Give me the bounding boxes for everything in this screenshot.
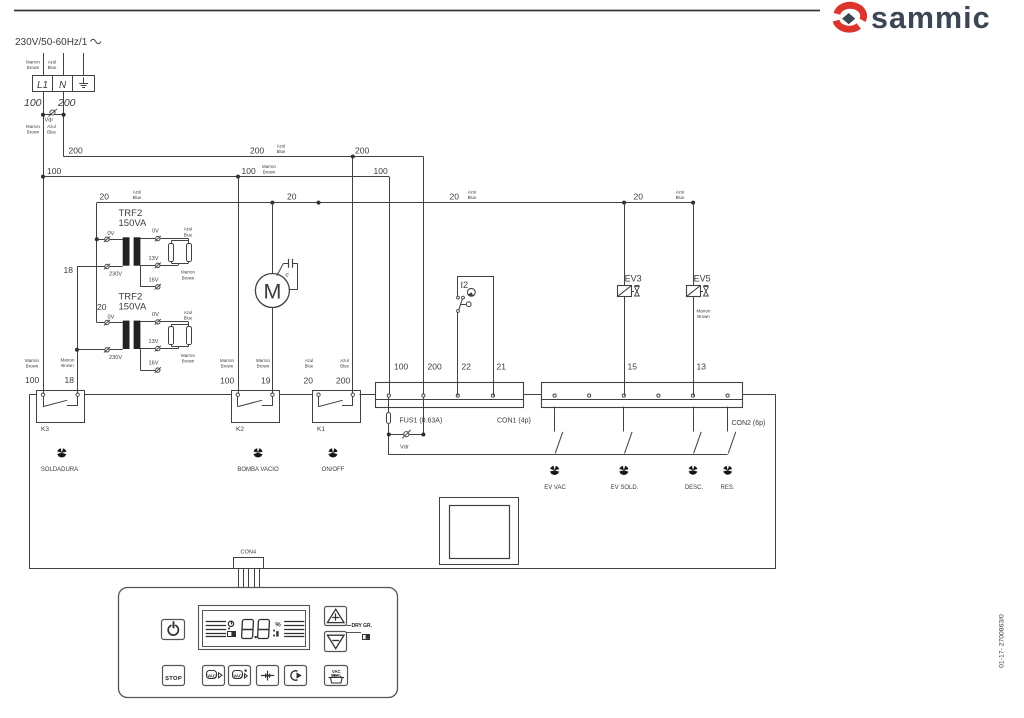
- svg-text:100: 100: [394, 362, 408, 372]
- svg-text:Marron: Marron: [697, 309, 711, 314]
- svg-text:22: 22: [462, 362, 472, 372]
- svg-text:Marron: Marron: [220, 358, 234, 363]
- svg-text:230V/50-60Hz/1: 230V/50-60Hz/1: [15, 37, 88, 48]
- svg-text:Brown: Brown: [182, 275, 195, 280]
- svg-text:FUS1 (0.63A): FUS1 (0.63A): [400, 418, 443, 425]
- svg-text:100: 100: [220, 376, 234, 386]
- svg-text:BOMBA VACIO: BOMBA VACIO: [237, 467, 279, 473]
- svg-text:Azul: Azul: [340, 358, 349, 363]
- svg-text:Marron: Marron: [61, 358, 75, 363]
- svg-text:20: 20: [100, 192, 110, 202]
- svg-text:CON1 (4p): CON1 (4p): [497, 418, 531, 425]
- svg-text:L1: L1: [37, 80, 48, 91]
- svg-text:230V: 230V: [109, 272, 122, 278]
- svg-text:sammic: sammic: [871, 1, 991, 35]
- svg-text:0V: 0V: [108, 314, 115, 320]
- svg-text:100: 100: [374, 166, 388, 176]
- svg-text:Brown: Brown: [182, 359, 195, 364]
- svg-text:150VA: 150VA: [119, 301, 147, 312]
- svg-text:Marron: Marron: [181, 270, 195, 275]
- svg-text:K3: K3: [41, 426, 49, 433]
- svg-text:Brown: Brown: [263, 169, 276, 174]
- svg-text:Vdr: Vdr: [400, 444, 409, 450]
- svg-text:13: 13: [697, 362, 707, 372]
- svg-text:20: 20: [304, 376, 314, 386]
- svg-text:K2: K2: [236, 426, 244, 433]
- svg-text:VAC: VAC: [207, 674, 216, 679]
- svg-text:13V: 13V: [149, 256, 159, 262]
- svg-text:Azul: Azul: [48, 60, 57, 65]
- svg-text:20: 20: [634, 192, 644, 202]
- svg-text:20: 20: [287, 192, 297, 202]
- svg-text:Marron: Marron: [25, 358, 39, 363]
- svg-text:Brown: Brown: [27, 130, 40, 135]
- svg-text:CON4: CON4: [241, 549, 257, 555]
- svg-text:DESC.: DESC.: [685, 485, 704, 491]
- svg-text:Blue: Blue: [184, 316, 193, 321]
- svg-text:ON/OFF: ON/OFF: [322, 467, 345, 473]
- svg-text:150VA: 150VA: [119, 218, 147, 229]
- svg-text:Blue: Blue: [340, 363, 349, 368]
- svg-text:Marron: Marron: [256, 358, 270, 363]
- svg-text:Blue: Blue: [48, 65, 57, 70]
- svg-text:100: 100: [24, 97, 42, 109]
- svg-text:0V: 0V: [152, 229, 159, 235]
- svg-text:EV5: EV5: [694, 273, 711, 283]
- svg-text:15: 15: [628, 362, 638, 372]
- svg-text:RES.: RES.: [720, 485, 734, 491]
- svg-text:200: 200: [250, 146, 264, 156]
- svg-text:18: 18: [65, 375, 75, 385]
- svg-text:Blue: Blue: [184, 232, 193, 237]
- svg-text:EV VAC: EV VAC: [544, 485, 566, 491]
- svg-text:Azul: Azul: [184, 227, 193, 232]
- svg-text:CON2 (6p): CON2 (6p): [732, 420, 766, 427]
- svg-text:Brown: Brown: [221, 363, 234, 368]
- svg-text:Brown: Brown: [26, 363, 39, 368]
- svg-text:Blue: Blue: [47, 130, 56, 135]
- svg-text:100: 100: [242, 166, 256, 176]
- svg-text:Azul: Azul: [676, 190, 685, 195]
- svg-text:DRY GR.: DRY GR.: [352, 623, 373, 629]
- svg-text:EV SOLD.: EV SOLD.: [611, 485, 639, 491]
- svg-text:19: 19: [261, 376, 271, 386]
- svg-text:VAC: VAC: [233, 674, 242, 679]
- svg-text:Blue: Blue: [133, 195, 142, 200]
- svg-text:Marron: Marron: [26, 60, 40, 65]
- svg-text:100: 100: [25, 375, 39, 385]
- svg-text:Vdr: Vdr: [45, 118, 54, 124]
- svg-text:13V: 13V: [149, 339, 159, 345]
- svg-text:Blue: Blue: [468, 195, 477, 200]
- svg-text:01-17- 2700863/0: 01-17- 2700863/0: [999, 614, 1006, 668]
- svg-text:I2: I2: [461, 280, 469, 290]
- svg-text:SOLDADURA: SOLDADURA: [41, 467, 78, 473]
- svg-text:20: 20: [450, 192, 460, 202]
- svg-text:200: 200: [428, 362, 442, 372]
- svg-text:Blue: Blue: [676, 195, 685, 200]
- svg-text:21: 21: [497, 362, 507, 372]
- svg-text:200: 200: [336, 376, 350, 386]
- svg-text:%: %: [275, 622, 281, 629]
- svg-text:200: 200: [355, 146, 369, 156]
- svg-text:Blue: Blue: [277, 149, 286, 154]
- svg-text:M: M: [263, 279, 281, 303]
- svg-text:16V: 16V: [149, 277, 159, 283]
- svg-text:Azul: Azul: [133, 190, 142, 195]
- svg-text:Azul: Azul: [305, 358, 314, 363]
- svg-text:Marron: Marron: [181, 353, 195, 358]
- svg-text:Azul: Azul: [277, 144, 286, 149]
- svg-text:18: 18: [64, 265, 74, 275]
- svg-text:0V: 0V: [152, 312, 159, 318]
- svg-text:Blue: Blue: [305, 363, 314, 368]
- svg-text:20: 20: [97, 302, 107, 312]
- svg-text:Brown: Brown: [61, 363, 74, 368]
- svg-text:N: N: [59, 80, 67, 91]
- svg-text:Marron: Marron: [262, 164, 276, 169]
- svg-text:200: 200: [69, 146, 83, 156]
- svg-text:STOP: STOP: [165, 676, 182, 682]
- svg-text:Brown: Brown: [697, 314, 710, 319]
- svg-text:K1: K1: [317, 426, 325, 433]
- svg-text:100: 100: [47, 166, 61, 176]
- svg-text:EV3: EV3: [625, 273, 642, 283]
- svg-text:Brown: Brown: [27, 65, 40, 70]
- svg-text:Marron: Marron: [26, 124, 40, 129]
- svg-text:Brown: Brown: [257, 363, 270, 368]
- svg-text:Azul: Azul: [468, 190, 477, 195]
- svg-text:230V: 230V: [109, 355, 122, 361]
- svg-text:0V: 0V: [108, 231, 115, 237]
- svg-text:200: 200: [57, 97, 76, 109]
- svg-text:16V: 16V: [149, 361, 159, 367]
- svg-text:Azul: Azul: [184, 310, 193, 315]
- svg-text:Azul: Azul: [47, 124, 56, 129]
